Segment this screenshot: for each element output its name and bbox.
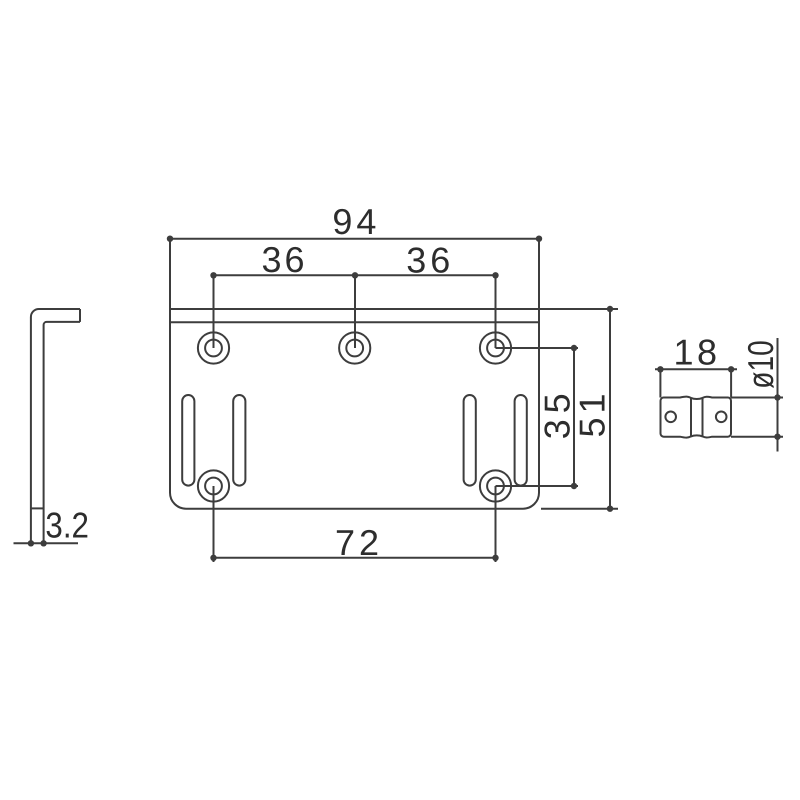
svg-text:51: 51 bbox=[572, 394, 613, 438]
dimension 18 dot right bbox=[728, 366, 734, 372]
right view bracket body bbox=[661, 397, 732, 438]
side view lip tip bbox=[79, 309, 81, 322]
dimension 36 extension middle bbox=[354, 275, 356, 348]
dimension 18 dot left bbox=[657, 366, 663, 372]
dimension 36 line bbox=[214, 274, 496, 276]
dimension 3.2 dot left bbox=[28, 540, 34, 546]
dimension 72 line bbox=[214, 557, 496, 559]
dimension 51 extension bottom bbox=[541, 508, 618, 510]
side view bottom tick bbox=[31, 507, 44, 509]
dimension phi10 extension top bbox=[731, 397, 783, 399]
slot S3 bbox=[464, 395, 476, 486]
dimension 72 dot right bbox=[492, 555, 498, 561]
dimension 3.2 dot right bbox=[40, 540, 46, 546]
dimension 36 dot right bbox=[492, 272, 498, 278]
slot S1 bbox=[182, 395, 194, 486]
hole H3 top-right bbox=[480, 332, 511, 363]
hole H2 top-middle bbox=[339, 332, 370, 363]
dimension 36 extension right bbox=[495, 275, 497, 348]
svg-text:36: 36 bbox=[262, 239, 305, 280]
dimension 36 dot left bbox=[210, 272, 216, 278]
right view hole right bbox=[716, 412, 727, 423]
svg-text:94: 94 bbox=[332, 201, 376, 242]
dimension 36 dot middle bbox=[352, 272, 358, 278]
dimension phi10 extension bottom bbox=[731, 436, 783, 438]
dimension 94 dot left bbox=[167, 236, 173, 242]
dimension 35 dot top bbox=[571, 345, 577, 351]
main plate outline bbox=[170, 309, 539, 509]
svg-text:ø10: ø10 bbox=[740, 340, 781, 388]
dimension 35 line bbox=[573, 348, 575, 486]
dimension 51 extension top bbox=[539, 308, 618, 310]
dimension 35 dot bottom bbox=[571, 483, 577, 489]
dimension 94 dot right bbox=[536, 236, 542, 242]
dimension 35 extension top bbox=[496, 347, 579, 349]
dimension 18 extension left bbox=[659, 369, 661, 397]
right view hole left bbox=[665, 412, 676, 423]
side view L-profile inner edge bbox=[44, 322, 80, 543]
dimension phi10 dot bottom bbox=[774, 434, 780, 440]
hole H4 bottom-left bbox=[198, 470, 229, 501]
dimension 72 extension right bbox=[495, 486, 497, 562]
plate bend crease line bbox=[170, 321, 539, 323]
dimension 94 line bbox=[170, 238, 539, 240]
dimension 35 extension bottom bbox=[496, 485, 579, 487]
svg-text:18: 18 bbox=[674, 332, 718, 373]
dimension phi10 dot top bbox=[774, 394, 780, 400]
dimension 72 extension left bbox=[213, 486, 215, 562]
dimension 51 dot bottom bbox=[607, 506, 613, 512]
dimension 3.2 line bbox=[14, 542, 79, 544]
dimension 51 line bbox=[609, 309, 611, 509]
hole H5 bottom-right bbox=[480, 470, 511, 501]
dimension 94 extension left bbox=[169, 239, 171, 309]
svg-text:3.2: 3.2 bbox=[45, 505, 89, 546]
dimension 18 extension right bbox=[730, 369, 732, 397]
dimension 36 extension left bbox=[213, 275, 215, 348]
dimension 72 dot left bbox=[210, 555, 216, 561]
right view middle line right bbox=[702, 398, 704, 437]
slot S2 bbox=[233, 395, 245, 486]
slot S4 bbox=[515, 395, 527, 486]
side view L-profile outer edge bbox=[31, 309, 80, 543]
dimension phi10 line bbox=[777, 338, 779, 452]
dimension 94 extension right bbox=[538, 239, 540, 309]
hole H1 top-left bbox=[198, 332, 229, 363]
right view middle line left bbox=[690, 398, 692, 437]
dimension 51 dot top bbox=[607, 306, 613, 312]
dimension 18 line bbox=[655, 368, 737, 370]
